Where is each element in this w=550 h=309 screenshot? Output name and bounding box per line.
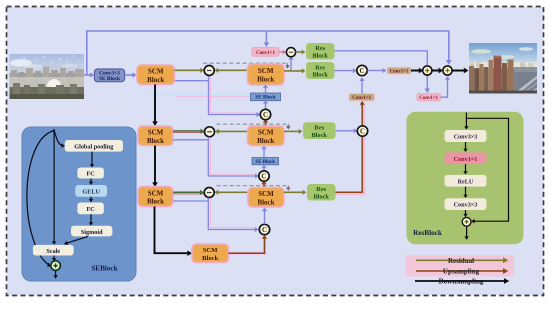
svg-text:C: C bbox=[262, 227, 267, 234]
wire: brown+pink vertical ResBlock3 out up to conv (crosses C131) bbox=[336, 105, 365, 194]
internal wire bbox=[90, 197, 92, 200]
SCM block row2 left (encoder) bbox=[138, 126, 173, 146]
svg-text:Block: Block bbox=[147, 137, 164, 145]
Sigmoid box bbox=[71, 226, 112, 237]
svg-text:Global pooling: Global pooling bbox=[74, 143, 114, 150]
svg-text:SCM: SCM bbox=[203, 247, 218, 254]
svg-text:Block: Block bbox=[202, 255, 218, 262]
svg-text:Res: Res bbox=[316, 186, 326, 193]
svg-text:Conv3×3: Conv3×3 bbox=[454, 202, 478, 209]
legend: Residual bbox=[416, 257, 508, 265]
svg-text:Sigmoid: Sigmoid bbox=[81, 229, 103, 236]
svg-text:Block: Block bbox=[312, 52, 328, 59]
svg-text:SE Block: SE Block bbox=[255, 95, 275, 101]
Res Block 1b bbox=[306, 62, 335, 79]
Res Block row3 bbox=[307, 184, 336, 201]
FC box 2 bbox=[77, 203, 104, 215]
FC box 1 bbox=[77, 168, 104, 179]
SCM block row3 right (decoder) bbox=[248, 188, 284, 208]
wire: brown upsample SCM row3 top to C176 bbox=[263, 184, 266, 187]
SE Block row2 bbox=[252, 158, 279, 166]
wire: black plus2 to output image bbox=[452, 70, 464, 72]
svg-text:Scale: Scale bbox=[46, 248, 60, 255]
wire: C362 to Conv1x1 tan right bbox=[367, 70, 383, 72]
svg-text:Conv1×1: Conv1×1 bbox=[352, 96, 371, 101]
wire: global input skip top line bbox=[87, 31, 449, 75]
wire: conv1x1 to minus-top bbox=[279, 51, 283, 53]
SCM block 4 (bottom) bbox=[192, 244, 229, 263]
wire: ResBlock1b out to C bbox=[335, 70, 354, 72]
wire: C176 up through SE2 into SCM3 bbox=[263, 168, 265, 171]
internal wire: big skip arc to multiply bbox=[27, 131, 54, 265]
wire: black downsample SCM1 to row2 bbox=[154, 85, 156, 122]
wire: purple L-path row1 (stub + vertical to C1) bbox=[175, 80, 209, 82]
node: minus circle row3 bbox=[204, 188, 214, 198]
internal wire: curve to Global pooling bbox=[54, 130, 62, 146]
internal wire: output down bbox=[55, 271, 57, 276]
svg-text:Res: Res bbox=[314, 124, 324, 131]
internal wire bbox=[90, 214, 92, 222]
wire: purple L-path row3 bbox=[173, 200, 208, 202]
wire: image to conv block bbox=[84, 74, 90, 76]
dashed detail line row3 bbox=[217, 185, 287, 187]
internal wire bbox=[90, 179, 92, 182]
SEBlock detail panel bbox=[22, 127, 136, 281]
SE Block row1 bbox=[251, 93, 281, 101]
internal wire bbox=[465, 142, 467, 149]
internal wire bbox=[465, 187, 467, 195]
svg-text:SCM: SCM bbox=[258, 67, 274, 75]
wire: olive SCM3 to ResBlock2 bbox=[284, 130, 299, 132]
wire: black conv to plus1 bbox=[411, 70, 419, 72]
svg-text:Downsampling: Downsampling bbox=[439, 278, 484, 286]
svg-text:Res: Res bbox=[315, 64, 325, 71]
svg-text:SEBlock: SEBlock bbox=[91, 264, 117, 272]
svg-text:ReLU: ReLU bbox=[458, 178, 474, 185]
wire: branch down into Conv1x1 top bbox=[265, 31, 267, 43]
svg-text:FC: FC bbox=[86, 206, 94, 213]
wire: pink conv out right and up into plus2 bbox=[441, 80, 448, 98]
wire: pink + cyan residual row1 bbox=[176, 96, 250, 98]
svg-text:Conv1×1: Conv1×1 bbox=[256, 51, 275, 56]
node: concat circle C1 bbox=[260, 109, 270, 119]
svg-text:SCM: SCM bbox=[148, 68, 164, 76]
internal wire: input vertical to Scale bbox=[53, 129, 55, 242]
svg-text:C: C bbox=[360, 129, 365, 136]
wire: olive SCM row3 right to minus3 (leftward) bbox=[218, 191, 248, 193]
legend: Downsampling bbox=[415, 278, 509, 286]
svg-text:Block: Block bbox=[312, 72, 328, 79]
svg-text:SE Block: SE Block bbox=[99, 76, 120, 82]
wire: olive SCM3 to minus2 (leftward) bbox=[218, 130, 247, 132]
SCM block row3 left (encoder) bbox=[138, 187, 173, 207]
svg-text:ResBlock: ResBlock bbox=[413, 229, 442, 237]
node: plus circle 1 bbox=[423, 66, 432, 75]
Conv1x1 tan box mid (above C131 path) bbox=[349, 94, 375, 102]
legend pink highlight bbox=[406, 255, 514, 277]
svg-text:SCM: SCM bbox=[148, 129, 164, 137]
svg-text:SE Block: SE Block bbox=[255, 160, 275, 165]
svg-text:SCM: SCM bbox=[148, 189, 164, 197]
Conv3x3 box b bbox=[445, 198, 487, 210]
node: multiply/add circle in SE panel bbox=[51, 261, 61, 271]
wire: black downsample row3 to SCM4 bbox=[155, 207, 188, 254]
svg-text:Block: Block bbox=[147, 198, 164, 206]
input hazy image bbox=[10, 54, 85, 99]
wire: brown upsample SCM4 to C229 bbox=[229, 239, 265, 253]
node: concat circle C row1 right bbox=[357, 65, 367, 75]
dashed detail line row1 bbox=[203, 62, 286, 64]
node: minus circle row2 bbox=[205, 127, 215, 137]
wire: black downsample row2 to row3 bbox=[154, 146, 156, 183]
legend: Upsampling bbox=[416, 268, 508, 276]
wire: green+red row3 encoder to minus3 bbox=[173, 193, 204, 195]
svg-text:SCM: SCM bbox=[258, 190, 274, 198]
GELU box bbox=[75, 185, 107, 197]
svg-text:Block: Block bbox=[311, 132, 327, 139]
svg-text:Block: Block bbox=[313, 193, 329, 200]
svg-text:Res: Res bbox=[315, 45, 325, 52]
node: minus circle row1 bbox=[204, 66, 214, 76]
Res Block 1a bbox=[306, 43, 335, 60]
wire: purple up-feed into minus-top bbox=[290, 60, 292, 71]
ResBlock detail panel bbox=[407, 112, 524, 245]
wire: ResBlock1a out to lower conv (crosses plus1) bbox=[335, 51, 428, 89]
node: plus circle 2 bbox=[443, 66, 452, 75]
svg-text:Conv1×1: Conv1×1 bbox=[454, 156, 478, 163]
svg-text:Block: Block bbox=[257, 75, 274, 83]
SCM block 3 (decoder row2) bbox=[248, 126, 285, 146]
Conv3x3 box a bbox=[445, 130, 487, 142]
SCM block 2 (decoder row1) bbox=[248, 64, 285, 85]
node: concat circle C row3-down bbox=[259, 224, 269, 234]
svg-text:Upsampling: Upsampling bbox=[443, 268, 480, 276]
Scale box bbox=[33, 245, 74, 256]
wire: minus-top to ResBlock1a bbox=[296, 51, 302, 53]
svg-text:GELU: GELU bbox=[82, 188, 100, 195]
node: minus circle top bbox=[286, 48, 295, 57]
Conv3x3 + SE Block input box bbox=[94, 69, 124, 82]
ReLU box bbox=[445, 175, 487, 187]
Conv1x1 tan box row1 bbox=[387, 67, 411, 74]
dashed detail line row2 bbox=[217, 123, 287, 125]
wire: olive SCM1 to minus1 bbox=[175, 69, 201, 71]
wire: brown upsample into tan conv bottom bbox=[361, 104, 363, 107]
internal wire: output down bbox=[466, 226, 468, 236]
svg-text:Conv1×1: Conv1×1 bbox=[419, 96, 438, 101]
wire: olive SCM2 to ResBlock1b bbox=[284, 70, 302, 72]
wire: C1 up through SE1 into SCM2 bbox=[265, 103, 267, 109]
Conv1x1 top pink box bbox=[252, 48, 279, 57]
internal wire: sigmoid to scale diagonal bbox=[67, 236, 89, 243]
svg-text:C: C bbox=[263, 112, 268, 119]
svg-text:C: C bbox=[360, 68, 365, 75]
svg-text:Block: Block bbox=[257, 199, 274, 207]
wire: conv block to SCM1 bbox=[125, 74, 133, 76]
internal wire bbox=[465, 164, 467, 171]
internal wire bbox=[465, 210, 467, 214]
svg-text:Conv1×1: Conv1×1 bbox=[390, 69, 409, 74]
output clear image bbox=[469, 43, 537, 94]
internal wire bbox=[91, 152, 93, 165]
Res Block row2 bbox=[303, 122, 336, 139]
wire: tan box up to C362 bbox=[361, 81, 363, 94]
node: concat circle C row2 right bbox=[357, 126, 367, 136]
Global pooling box bbox=[65, 140, 123, 152]
wire: black plus1 to plus2 bbox=[432, 70, 439, 72]
svg-text:FC: FC bbox=[86, 171, 94, 178]
node: plus circle in ResBlock panel bbox=[462, 217, 471, 226]
SCM block 1 bbox=[137, 65, 175, 85]
svg-text:Residual: Residual bbox=[448, 257, 474, 265]
wire: green+red row2 encoder to minus2 bbox=[173, 132, 204, 134]
svg-text:Block: Block bbox=[257, 137, 274, 145]
internal wire: scale down to multiply bbox=[53, 256, 55, 259]
svg-text:Conv3×3: Conv3×3 bbox=[454, 134, 478, 141]
svg-text:Block: Block bbox=[147, 76, 164, 84]
internal wire: entry + skip bbox=[465, 113, 467, 127]
svg-text:C: C bbox=[262, 174, 267, 181]
wire: olive SCM2 to minus1 (leftward) bbox=[218, 69, 248, 71]
node: concat circle C row2-down bbox=[259, 171, 269, 181]
wire: ResBlock2 out to C row2 bbox=[336, 130, 355, 132]
wire: C229 up into SCM row3 right bbox=[264, 211, 266, 224]
wire: brown upsample SCM3 top to C1 bbox=[264, 123, 267, 126]
Conv1x1 pink box lower right bbox=[417, 94, 441, 102]
Conv1x1 red box bbox=[445, 152, 487, 164]
svg-text:SCM: SCM bbox=[258, 129, 274, 137]
wire: purple L-path row2 bbox=[173, 139, 208, 141]
wire: olive SCM row3 right to ResBlock3 bbox=[284, 191, 303, 193]
